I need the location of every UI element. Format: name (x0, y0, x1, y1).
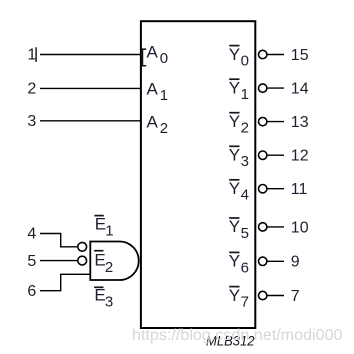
inverter bubble E1 input (78, 242, 87, 251)
node A1 label (147, 80, 169, 104)
inverter bubble Y6 output (259, 257, 267, 265)
inverter bubble Y3 output (259, 151, 267, 159)
node Y4 label (229, 179, 249, 204)
svg-text:2: 2 (241, 120, 249, 137)
wire pin4 to E1 bubble (40, 234, 77, 247)
svg-text:Y: Y (229, 286, 240, 305)
svg-text:12: 12 (291, 148, 309, 165)
wire pin1 to A0 (40, 54, 141, 56)
svg-text:1: 1 (160, 87, 168, 104)
svg-text:2: 2 (105, 259, 113, 276)
svg-text:0: 0 (241, 53, 249, 70)
svg-text:1: 1 (241, 86, 249, 103)
net E1 label (94, 215, 113, 240)
inverter bubble Y1 output (259, 84, 267, 92)
svg-text:6: 6 (241, 259, 249, 276)
node Y3 label (229, 146, 249, 171)
svg-text:A: A (147, 80, 159, 99)
svg-text:0: 0 (160, 50, 168, 67)
wire Y3 to pin12 (267, 154, 284, 156)
svg-text:A: A (147, 112, 159, 131)
inverter bubble Y5 output (259, 223, 267, 231)
node Y2 label (229, 112, 249, 137)
svg-text:5: 5 (27, 253, 36, 270)
svg-text:14: 14 (291, 81, 309, 98)
node Y6 label (229, 252, 249, 277)
svg-text:15: 15 (291, 47, 309, 64)
wire pin3 to A2 (40, 120, 141, 122)
node Y5 label (229, 217, 249, 242)
svg-text:9: 9 (291, 254, 300, 271)
svg-text:2: 2 (27, 81, 36, 98)
svg-text:11: 11 (291, 181, 308, 198)
wire Y0 to pin15 (267, 54, 284, 56)
svg-text:4: 4 (27, 226, 36, 243)
svg-text:7: 7 (291, 288, 300, 305)
svg-text:Y: Y (229, 112, 240, 131)
svg-text:2: 2 (160, 120, 168, 137)
inverter bubble E2 input (78, 256, 87, 265)
wire Y6 to pin9 (267, 260, 284, 262)
wire Y1 to pin14 (267, 87, 284, 89)
svg-text:3: 3 (105, 294, 113, 311)
wire Y4 to pin11 (267, 188, 284, 190)
IC U1 MLB312 body (141, 21, 255, 328)
svg-text:10: 10 (291, 219, 309, 236)
inverter bubble Y0 output (259, 50, 267, 58)
svg-text:Y: Y (229, 217, 240, 236)
svg-text:3: 3 (241, 153, 249, 170)
inverter bubble Y2 output (259, 117, 267, 125)
wire Y5 to pin10 (267, 226, 284, 228)
node A0 label (143, 42, 169, 67)
node Y1 label (229, 78, 249, 103)
node A2 label (147, 112, 169, 137)
wire Y2 to pin13 (267, 121, 284, 123)
svg-text:Y: Y (229, 179, 240, 198)
inverter bubble Y4 output (259, 185, 267, 193)
net E3 label (94, 286, 113, 311)
net E2 label (94, 251, 113, 276)
svg-text:1: 1 (27, 47, 36, 64)
svg-text:4: 4 (241, 187, 249, 204)
inverter bubble Y7 output (259, 291, 267, 299)
node Y0 label (229, 45, 249, 70)
svg-text:https://blog.csdn.net/modi000: https://blog.csdn.net/modi000 (132, 327, 343, 344)
pin 1 label (27, 47, 36, 64)
svg-text:Y: Y (229, 146, 240, 165)
svg-text:7: 7 (241, 294, 249, 311)
svg-text:13: 13 (291, 114, 309, 131)
enable AND gate G1 (90, 242, 138, 281)
svg-text:Y: Y (229, 78, 240, 97)
svg-text:Y: Y (229, 252, 240, 271)
wire pin5 to E2 bubble (40, 260, 77, 262)
wire Y7 to pin7 (267, 295, 284, 297)
svg-text:Y: Y (229, 45, 240, 64)
svg-text:A: A (147, 42, 159, 61)
node Y7 label (229, 286, 249, 311)
svg-text:5: 5 (241, 225, 249, 242)
wire pin2 to A1 (40, 87, 141, 89)
svg-text:3: 3 (27, 113, 36, 130)
svg-text:6: 6 (27, 283, 36, 300)
wire pin6 to E3 gate input (40, 274, 90, 290)
svg-text:1: 1 (105, 223, 113, 240)
